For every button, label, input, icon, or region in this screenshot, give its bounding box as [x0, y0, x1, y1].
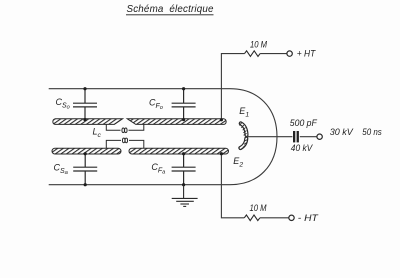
- junction node CFa top: [182, 152, 185, 155]
- wire -HT branch: [221, 154, 244, 218]
- svg-text:Schéma électrique: Schéma électrique: [127, 4, 215, 15]
- capacitor CSa: [73, 154, 97, 185]
- wire resistor to -HT terminal: [260, 217, 289, 219]
- wire output from electrodes: [247, 136, 293, 138]
- junction node CSa bottom: [84, 183, 87, 186]
- terminal output: [317, 134, 322, 139]
- svg-text:CSa: CSa: [54, 163, 69, 177]
- svg-text:Lc: Lc: [93, 127, 102, 140]
- svg-text:+ HT: + HT: [297, 49, 316, 59]
- svg-text:- HT: - HT: [298, 213, 319, 223]
- resistor R2 10M: [244, 215, 260, 221]
- inductor Lc upper bridge: [106, 124, 144, 132]
- junction node CFa bottom: [182, 183, 185, 186]
- inductor Lc lower bridge: [106, 138, 144, 148]
- terminal +HT: [287, 51, 292, 56]
- plate lower-left (hatched electrode bar): [52, 148, 121, 154]
- plate upper-right (hatched electrode bar): [127, 119, 226, 125]
- junction node plate upper right: [220, 118, 223, 121]
- svg-text:E2: E2: [233, 156, 243, 169]
- svg-text:50 ns: 50 ns: [362, 127, 382, 137]
- junction node CSo top: [83, 87, 86, 90]
- capacitor CFa: [172, 154, 196, 185]
- ground: [172, 185, 198, 207]
- svg-text:10 M: 10 M: [250, 203, 268, 213]
- electrode E2: [240, 139, 247, 150]
- svg-text:CSo: CSo: [56, 97, 70, 111]
- title "Schéma électrique": [126, 4, 214, 15]
- capacitor 500pF: [293, 131, 299, 142]
- terminal -HT: [289, 215, 294, 220]
- wire output to terminal: [300, 136, 317, 138]
- svg-text:40 kV: 40 kV: [291, 143, 313, 153]
- svg-text:30 kV: 30 kV: [330, 127, 354, 137]
- resistor R1 10M: [245, 51, 261, 57]
- svg-text:CFa: CFa: [151, 162, 166, 176]
- electrode E1: [239, 123, 246, 135]
- plate upper-left (hatched electrode bar): [53, 119, 123, 125]
- svg-text:CFo: CFo: [149, 98, 163, 112]
- junction node CFo top: [182, 87, 185, 90]
- capacitor CSo: [73, 89, 97, 120]
- svg-text:500 pF: 500 pF: [290, 118, 318, 128]
- wire resistor to +HT terminal: [260, 53, 287, 55]
- wire +HT branch: [221, 54, 244, 120]
- svg-text:E1: E1: [239, 106, 249, 119]
- junction node CFo bottom: [182, 118, 185, 121]
- junction node CSo bottom: [83, 118, 86, 121]
- capacitor CFo: [172, 89, 196, 120]
- tube envelope V1: [49, 89, 277, 185]
- svg-text:10 M: 10 M: [250, 40, 268, 50]
- junction node plate lower right: [220, 152, 223, 155]
- plate lower-right (hatched electrode bar): [129, 148, 229, 154]
- junction node CSa top: [84, 152, 87, 155]
